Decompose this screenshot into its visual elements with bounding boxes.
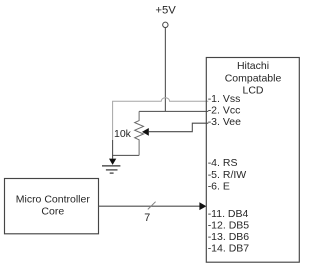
ground bar 1 xyxy=(102,165,120,167)
Micro Controller box xyxy=(5,179,99,234)
svg-text:Hitachi: Hitachi xyxy=(237,60,269,72)
wire Vss (gray) from LCD pin1 with hop over +5V wire xyxy=(113,98,209,140)
wire Vee from wiper to LCD pin3 xyxy=(148,123,208,132)
ground bar 2 xyxy=(106,169,118,171)
svg-text:-5. R/IW: -5. R/IW xyxy=(208,169,247,181)
potentiometer R1 10k body xyxy=(135,111,144,155)
bus arrowhead into LCD xyxy=(199,202,206,210)
bus width slash xyxy=(148,202,156,210)
potentiometer wiper arrow xyxy=(142,128,149,136)
svg-text:-14. DB7: -14. DB7 xyxy=(208,242,250,254)
ground stem xyxy=(112,155,114,158)
svg-text:+5V: +5V xyxy=(155,4,176,16)
svg-text:-1. Vss: -1. Vss xyxy=(208,93,241,105)
svg-text:-2. Vcc: -2. Vcc xyxy=(208,104,241,116)
wire Vss to ground (dark segment) xyxy=(113,140,140,155)
ground triangle xyxy=(109,159,116,165)
svg-text:Core: Core xyxy=(41,205,64,217)
svg-text:-11. DB4: -11. DB4 xyxy=(208,208,249,220)
wire +5V vertical to Vcc rail xyxy=(164,28,166,112)
LCD module box U1 xyxy=(206,58,299,263)
ground bar 3 xyxy=(110,172,114,174)
svg-text:LCD: LCD xyxy=(242,85,263,97)
wire data bus MCU to LCD xyxy=(99,205,201,207)
svg-text:-13. DB6: -13. DB6 xyxy=(208,231,250,243)
svg-text:Micro Controller: Micro Controller xyxy=(16,194,91,206)
svg-text:-4. RS: -4. RS xyxy=(208,157,238,169)
svg-text:10k: 10k xyxy=(114,128,132,140)
svg-text:-3. Vee: -3. Vee xyxy=(208,116,241,128)
svg-text:7: 7 xyxy=(144,212,150,224)
svg-text:Compatable: Compatable xyxy=(225,72,282,84)
+5V terminal circle xyxy=(163,22,168,27)
svg-text:-6. E: -6. E xyxy=(208,181,230,193)
svg-text:-12. DB5: -12. DB5 xyxy=(208,219,250,231)
wire Vcc rail to LCD pin2 xyxy=(139,110,208,112)
